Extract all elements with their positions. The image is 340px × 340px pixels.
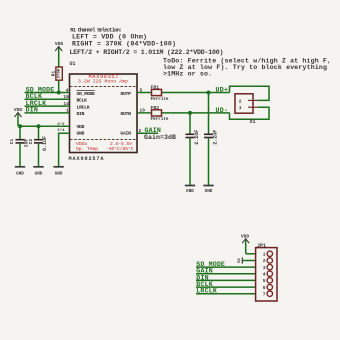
svg-text:3*4: 3*4 xyxy=(57,128,65,133)
svg-text:7: 7 xyxy=(263,291,266,297)
ground (under C5) xyxy=(203,186,213,194)
svg-text:DIN: DIN xyxy=(77,111,85,117)
svg-text:1: 1 xyxy=(239,105,242,111)
ground (under C4) xyxy=(185,186,195,194)
svg-text:Ferrite: Ferrite xyxy=(151,96,169,102)
svg-text:14: 14 xyxy=(63,101,69,107)
svg-text:370K: 370K xyxy=(57,68,61,78)
svg-text:2.2uF: 2.2uF xyxy=(212,130,218,145)
svg-text:VDD: VDD xyxy=(55,41,64,47)
wire VDD to JP1 pin 1 xyxy=(246,253,256,255)
note R1 channel selection xyxy=(70,28,224,57)
wire VDD rail xyxy=(18,122,70,127)
svg-text:5: 5 xyxy=(140,87,143,93)
svg-text:10: 10 xyxy=(140,108,146,114)
op-amp U1 MAX98357 IC body xyxy=(69,61,138,162)
svg-text:R1: R1 xyxy=(51,71,57,77)
svg-text:1: 1 xyxy=(66,108,69,114)
svg-text:5: 5 xyxy=(263,278,266,284)
svg-text:R1 Channel Selection:: R1 Channel Selection: xyxy=(70,28,122,34)
node junction cap/OUTN xyxy=(188,111,192,115)
wire OUTN xyxy=(137,108,230,114)
svg-text:2: 2 xyxy=(263,258,266,264)
jumper stub JP1 pin 2 xyxy=(238,257,256,263)
svg-text:GAIN: GAIN xyxy=(120,131,131,137)
svg-text:-40°C/85°C: -40°C/85°C xyxy=(106,146,134,152)
svg-text:LRCLK: LRCLK xyxy=(77,104,90,110)
svg-text:SD_MODE: SD_MODE xyxy=(77,91,96,97)
svg-text:3.2W I2S Mono Amp: 3.2W I2S Mono Amp xyxy=(78,79,128,85)
wire GND pin of U1 xyxy=(57,128,69,167)
connector JP1 xyxy=(256,243,277,301)
node junction C2/rail xyxy=(37,124,41,128)
svg-text:4: 4 xyxy=(66,87,69,93)
ferrite FB2 xyxy=(151,105,169,122)
svg-text:U1: U1 xyxy=(70,61,76,67)
capacitor C4 (on UD-) xyxy=(186,113,200,186)
note ToDo ferrite xyxy=(163,57,331,77)
capacitor C2 xyxy=(28,126,48,166)
resistor R1 xyxy=(51,41,64,93)
svg-text:1: 1 xyxy=(263,252,266,258)
connector X1 xyxy=(235,94,257,125)
wire OUTP xyxy=(137,87,230,93)
node junction R1/SD_MODE xyxy=(57,91,61,95)
svg-text:GND: GND xyxy=(35,172,43,177)
wire BCLK (left) xyxy=(25,93,70,100)
svg-text:2*2: 2*2 xyxy=(57,122,65,127)
wire SD_MODE (left) xyxy=(25,86,70,93)
svg-text:GND: GND xyxy=(55,172,63,177)
svg-text:GND: GND xyxy=(186,189,194,194)
svg-text:4: 4 xyxy=(263,272,266,278)
ground (under C2) xyxy=(33,167,43,177)
svg-text:UD-: UD- xyxy=(216,107,229,114)
svg-text:X1: X1 xyxy=(250,119,256,125)
node junction C1/rail xyxy=(18,124,22,128)
svg-text:2: 2 xyxy=(239,98,242,104)
svg-text:Op. Temp: Op. Temp xyxy=(76,146,98,152)
svg-text:>1MHz or so.: >1MHz or so. xyxy=(163,71,212,78)
svg-text:LEFT/2 + RIGHT/2 = 1.011M (222: LEFT/2 + RIGHT/2 = 1.011M (222.2*VDD-100… xyxy=(70,49,224,56)
svg-text:Ferrite: Ferrite xyxy=(151,116,169,122)
svg-text:LRCLK: LRCLK xyxy=(196,288,217,295)
wire loop to X1 pin 2 xyxy=(230,86,270,100)
svg-text:VDD: VDD xyxy=(77,124,85,130)
svg-text:RIGHT = 370K (94*VDD-100): RIGHT = 370K (94*VDD-100) xyxy=(72,40,176,47)
svg-text:OUTN: OUTN xyxy=(120,111,131,117)
power VDD (header) xyxy=(241,234,250,254)
svg-text:3: 3 xyxy=(263,265,266,271)
ground (under C1) xyxy=(15,167,25,177)
wire LRCLK (header) xyxy=(196,288,256,295)
svg-text:2: 2 xyxy=(139,128,142,134)
svg-text:2.2uF: 2.2uF xyxy=(194,130,200,145)
svg-text:GND: GND xyxy=(77,131,85,137)
capacitor C5 (on UD+) xyxy=(204,93,218,186)
ground (U1 GND pin) xyxy=(53,167,63,177)
svg-text:OUTP: OUTP xyxy=(120,91,131,97)
svg-text:6: 6 xyxy=(263,285,266,291)
wire GAIN (header) xyxy=(196,268,256,275)
svg-text:16: 16 xyxy=(63,94,69,100)
wire LRCLK (left) xyxy=(25,100,70,107)
svg-text:R5: R5 xyxy=(238,258,242,263)
svg-text:MAX98357A: MAX98357A xyxy=(69,156,105,162)
svg-text:UD+: UD+ xyxy=(216,86,229,93)
wire loop to X1 pin 1 xyxy=(230,107,270,119)
svg-text:0.1uF: 0.1uF xyxy=(42,136,48,151)
svg-text:DIN: DIN xyxy=(26,107,38,114)
power VDD (left rail) xyxy=(14,107,23,126)
svg-text:Gain=3dB: Gain=3dB xyxy=(144,134,176,141)
node junction cap/OUTP xyxy=(207,91,211,95)
svg-text:FB2: FB2 xyxy=(151,105,160,111)
wire DIN (left) xyxy=(25,107,70,114)
svg-text:C1: C1 xyxy=(9,139,15,145)
wire DIN (header) xyxy=(196,274,256,281)
svg-text:BCLK: BCLK xyxy=(77,98,88,104)
wire GAIN xyxy=(137,127,161,134)
svg-text:GND: GND xyxy=(205,189,213,194)
svg-text:FB1: FB1 xyxy=(151,85,160,91)
ferrite FB1 xyxy=(151,85,169,102)
svg-text:C2: C2 xyxy=(28,139,34,145)
svg-text:GND: GND xyxy=(16,172,24,177)
wire BCLK (header) xyxy=(196,281,256,288)
wire SD_MODE (header) xyxy=(196,261,256,268)
capacitor C1 xyxy=(9,126,30,166)
